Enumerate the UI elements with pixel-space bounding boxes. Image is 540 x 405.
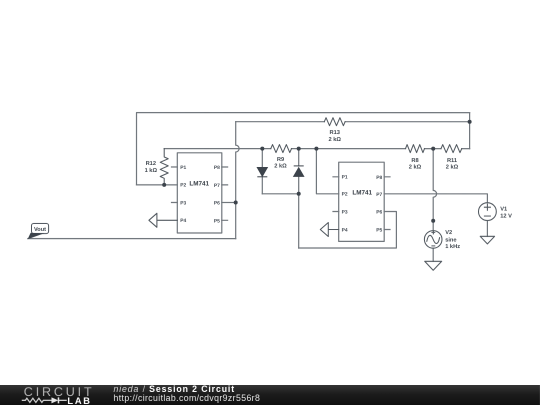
ground for V1: [480, 236, 494, 244]
op-amp U1 box: [177, 153, 222, 233]
svg-text:P2: P2: [180, 183, 186, 189]
resistor R11: [441, 145, 462, 153]
svg-text:Vout: Vout: [34, 227, 46, 233]
wire diode bottom node: [262, 193, 298, 195]
wire R13 rail: [236, 121, 470, 123]
junction R12 bottom / U1 P2: [162, 183, 166, 187]
svg-text:P7: P7: [376, 192, 382, 198]
resistor R12: [160, 149, 168, 185]
junction V2 terminal: [431, 219, 435, 223]
svg-text:P3: P3: [180, 200, 186, 206]
wire main rail y149: [164, 148, 469, 150]
junction rail / U2 P2 branch: [314, 147, 318, 151]
svg-text:R8: R8: [411, 158, 418, 164]
footer bar: [0, 385, 540, 405]
labels resistors: [145, 130, 459, 174]
junction diode bottom node: [297, 192, 301, 196]
svg-text:LAB: LAB: [67, 395, 91, 405]
wire right vertical from top rail to R11: [469, 113, 471, 149]
junction R13 / feedback node: [468, 120, 472, 124]
footer text: [113, 385, 260, 404]
svg-text:P4: P4: [342, 227, 348, 233]
svg-text:LM741: LM741: [352, 189, 372, 196]
voltage source V2 circle: [424, 231, 442, 249]
svg-text:R13: R13: [329, 130, 339, 136]
svg-text:P3: P3: [342, 209, 348, 215]
flag arrow at U1 P4: [149, 213, 177, 227]
resistor R8: [406, 145, 425, 153]
wire op2 P6 wrap-around: [299, 212, 397, 249]
svg-text:V1: V1: [500, 207, 507, 213]
resistor R13: [324, 118, 345, 126]
svg-text:P6: P6: [214, 200, 220, 206]
svg-text:R11: R11: [447, 158, 457, 164]
diode D left body: [257, 167, 267, 176]
svg-text:P4: P4: [180, 218, 186, 224]
op-amp U1 labels: [180, 165, 220, 225]
svg-text:2 kΩ: 2 kΩ: [446, 163, 459, 170]
svg-text:P1: P1: [180, 165, 186, 171]
ground for V2: [425, 261, 442, 270]
CircuitLab logo: [0, 385, 110, 405]
op-amp U2 box: [339, 162, 385, 241]
V2 sine wave: [427, 235, 440, 243]
wire op2 P7 to V1: [384, 194, 487, 203]
svg-text:R9: R9: [277, 157, 284, 163]
svg-text:P7: P7: [214, 183, 220, 189]
labels sources: [445, 207, 512, 251]
svg-text:2 kΩ: 2 kΩ: [274, 163, 287, 170]
diode D left (down) leads: [261, 149, 263, 194]
svg-text:P2: P2: [342, 192, 348, 198]
op-amp U1 pin stubs: [171, 167, 227, 220]
svg-text:1 kHz: 1 kHz: [445, 243, 460, 250]
op-amp U2 pin stubs: [333, 177, 390, 230]
Vout net flag: [28, 223, 49, 239]
wire rail to op2 P2: [316, 149, 338, 194]
wire vout horizontal: [28, 238, 236, 240]
svg-text:P1: P1: [342, 175, 348, 181]
svg-text:P5: P5: [376, 228, 382, 234]
svg-text:1 kΩ: 1 kΩ: [145, 167, 158, 174]
svg-text:P8: P8: [376, 175, 382, 181]
svg-text:12 V: 12 V: [500, 213, 512, 219]
junction R8-R11 node: [431, 147, 435, 151]
flag arrow at U2 P4: [320, 223, 338, 237]
voltage source V1 circle: [478, 203, 496, 221]
svg-text:sine: sine: [445, 236, 456, 243]
diode D right (up) leads: [298, 149, 300, 248]
svg-text:R12: R12: [146, 161, 156, 167]
V2 plus minus small: [432, 231, 435, 246]
junction U1 P6 / Vout line: [234, 200, 238, 204]
wire V2 to ground: [432, 248, 434, 261]
resistor R9: [271, 145, 292, 153]
wire op1 P2 input: [137, 184, 178, 186]
svg-text:LM741: LM741: [189, 180, 209, 187]
wire top feedback rail: [137, 113, 470, 185]
svg-text:2 kΩ: 2 kΩ: [328, 136, 341, 143]
svg-text:P8: P8: [214, 165, 220, 171]
wire V1 to ground: [486, 221, 488, 237]
junction rail / D1 anode: [260, 147, 264, 151]
wire op1 P6 to vertical: [222, 201, 236, 203]
V1 plus minus: [484, 204, 490, 216]
svg-text:V2: V2: [445, 230, 452, 236]
svg-text:2 kΩ: 2 kΩ: [409, 163, 422, 170]
wire R8R11 node down to V2 with hop: [433, 149, 436, 231]
diode D right body: [294, 166, 304, 177]
svg-text:P6: P6: [376, 210, 382, 216]
junction rail / D2 cathode: [297, 147, 301, 151]
op-amp U2 labels: [342, 175, 383, 234]
wire vout vertical with hop: [236, 122, 239, 239]
svg-text:P5: P5: [214, 218, 220, 224]
